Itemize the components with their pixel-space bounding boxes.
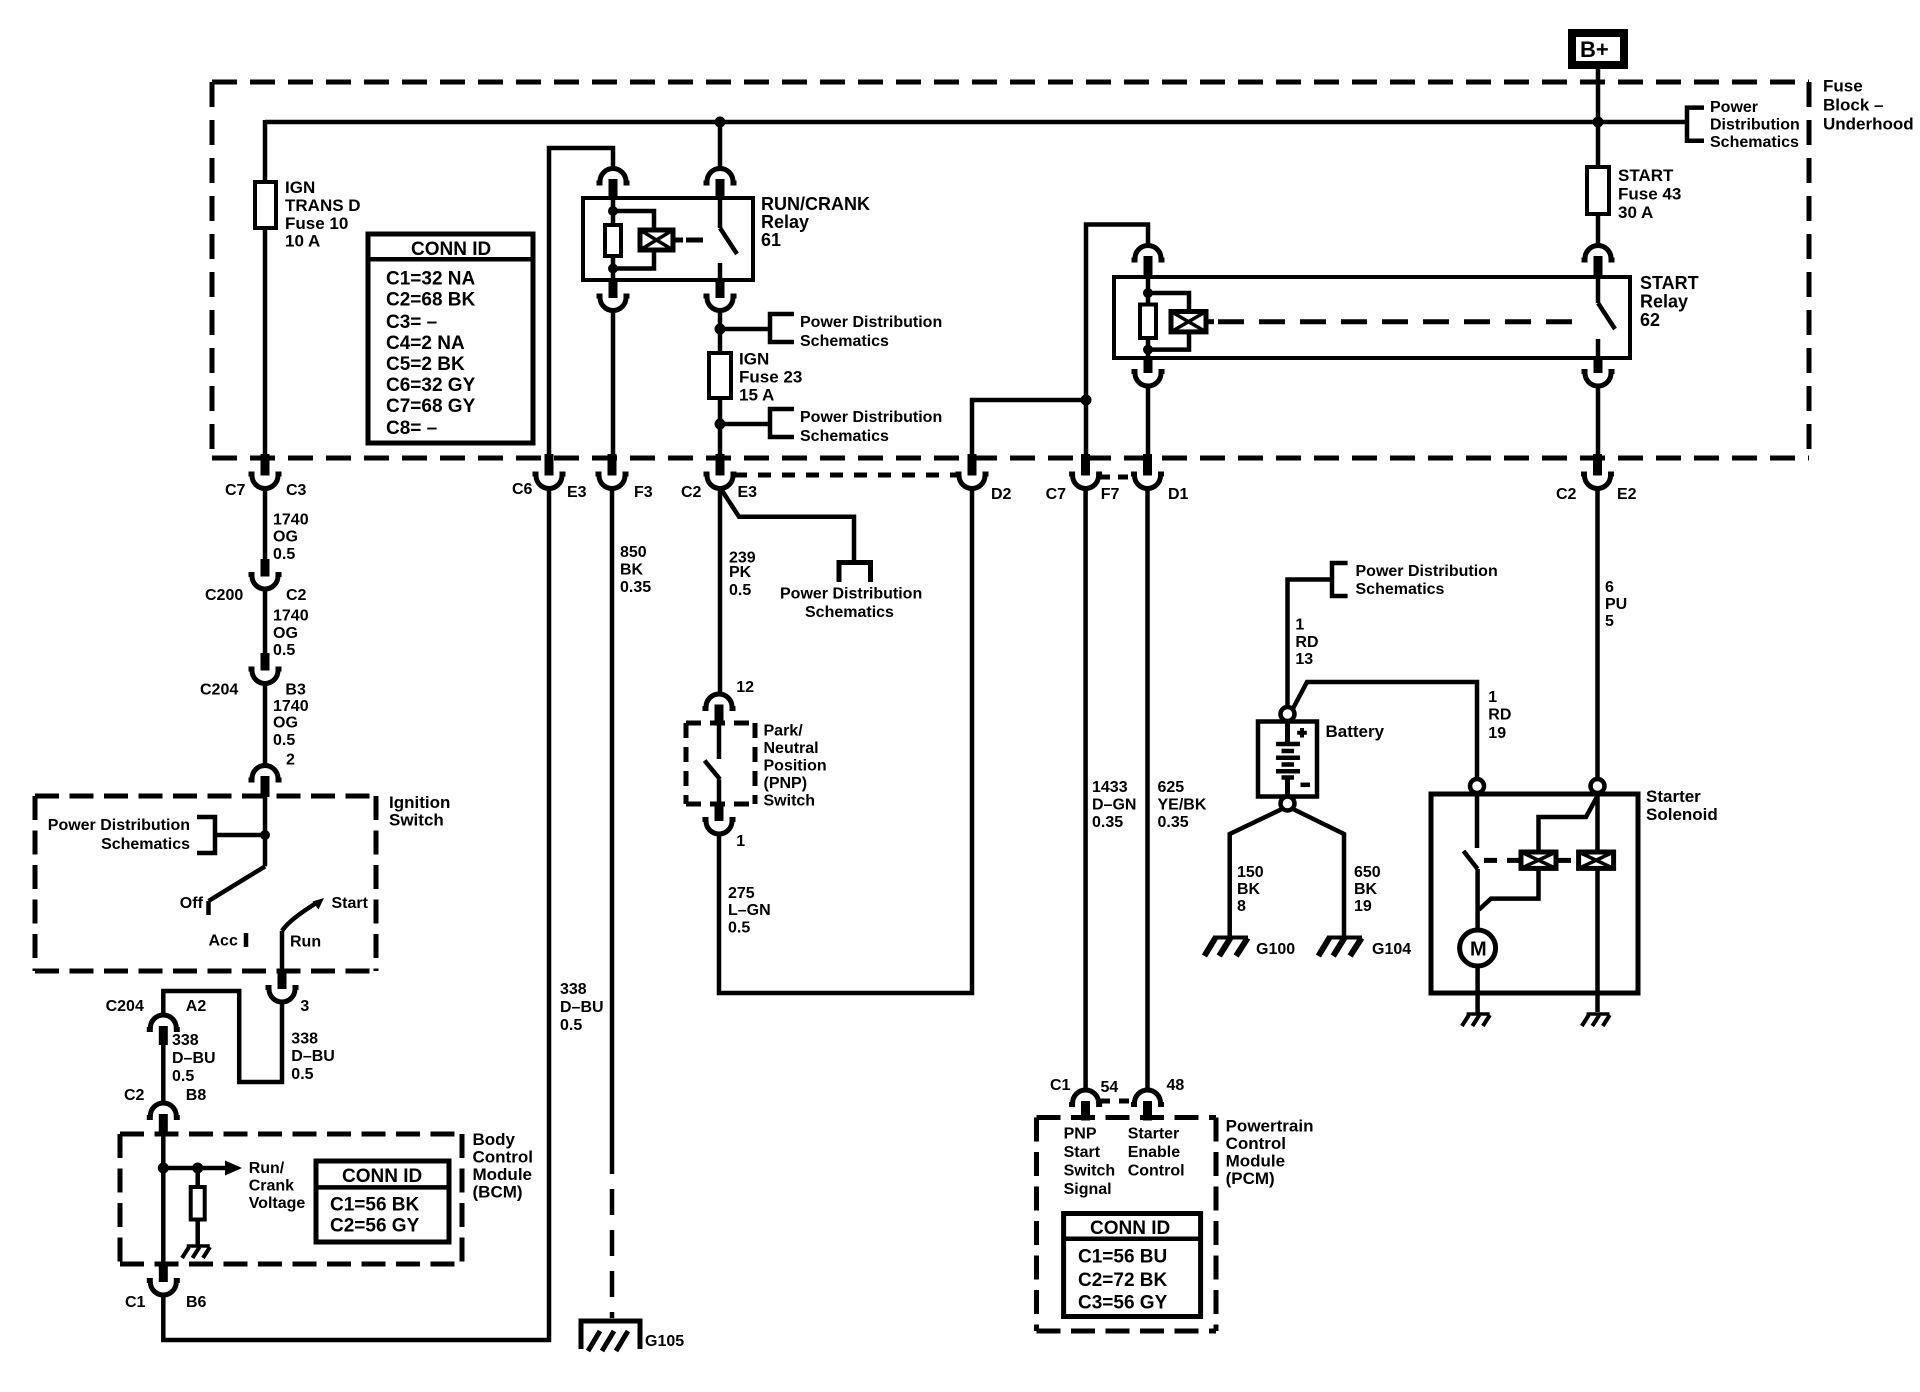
- svg-text:PU: PU: [1605, 596, 1627, 613]
- svg-text:C6=32 GY: C6=32 GY: [386, 375, 476, 396]
- svg-text:A2: A2: [186, 998, 207, 1015]
- wire 1740 OG: C3 to C200: [263, 489, 268, 561]
- svg-text:0.5: 0.5: [273, 732, 295, 749]
- svg-text:C2=72 BK: C2=72 BK: [1078, 1270, 1168, 1291]
- wire: relay 61 coil pin to F3: [611, 311, 616, 456]
- svg-text:C5=2 BK: C5=2 BK: [386, 354, 465, 375]
- junction node resistor tap: [192, 1163, 203, 1174]
- svg-text:Park/: Park/: [764, 723, 804, 740]
- svg-text:C7: C7: [225, 482, 246, 499]
- wire: D1 down to PCM: [1145, 489, 1150, 1091]
- svg-text:625: 625: [1158, 779, 1185, 796]
- wire: bus corner down to IGN TRANS D fuse: [263, 120, 268, 182]
- fuse F43: START Fuse 43 30A: [1587, 166, 1681, 222]
- svg-text:Neutral: Neutral: [764, 740, 819, 757]
- svg-text:C1: C1: [1050, 1077, 1071, 1094]
- junction node below fuse 23: [715, 419, 726, 430]
- svg-text:Control: Control: [1128, 1162, 1185, 1179]
- svg-text:0.5: 0.5: [728, 920, 750, 937]
- connector C2/E2 at fuse block exit: [1556, 454, 1637, 503]
- module box: Powertrain Control Module PCM (dashed border): [1037, 1118, 1217, 1332]
- dashed actuation link (solenoid): [1484, 858, 1578, 863]
- svg-text:D–BU: D–BU: [172, 1050, 216, 1067]
- wire: relay 61 switch pin to IGN fuse 23: [718, 311, 723, 354]
- svg-text:54: 54: [1101, 1079, 1119, 1096]
- svg-text:Schematics: Schematics: [800, 333, 889, 350]
- ground (starter motor): [1462, 1014, 1490, 1026]
- svg-text:Power Distribution: Power Distribution: [800, 409, 942, 426]
- svg-text:IGN: IGN: [285, 178, 315, 197]
- solenoid coil 1 winding: [1521, 852, 1556, 868]
- svg-text:Start: Start: [332, 895, 369, 912]
- battery negative terminal node: [1281, 797, 1295, 811]
- svg-text:Fuse: Fuse: [1823, 77, 1863, 96]
- svg-text:C3= –: C3= –: [386, 312, 437, 333]
- connector C6/E3 at fuse block exit: [512, 454, 587, 501]
- svg-text:5: 5: [1605, 613, 1614, 630]
- label: circuit 1 RD 19: [1488, 689, 1511, 742]
- label: circuit 1 RD 13: [1295, 617, 1318, 669]
- connector 48 at PCM (dome): [1131, 1077, 1184, 1121]
- svg-text:10 A: 10 A: [285, 232, 320, 251]
- svg-text:275: 275: [728, 885, 755, 902]
- svg-text:CONN ID: CONN ID: [342, 1166, 422, 1187]
- module box: Fuse Block - Underhood (dashed border): [212, 82, 1809, 458]
- svg-text:C3: C3: [286, 482, 307, 499]
- connector D2 at fuse block exit: [956, 454, 1012, 503]
- wire 1740 OG: C200 to C204: [263, 589, 268, 654]
- fuse F10: IGN TRANS D Fuse 10 10A: [255, 178, 361, 250]
- svg-text:C2: C2: [286, 587, 307, 604]
- wire: fuse 43 to START relay switch: [1596, 214, 1601, 246]
- svg-text:62: 62: [1640, 310, 1660, 330]
- table: CONN ID (BCM): [316, 1161, 449, 1242]
- wire: START relay coil feed from F7 leg: [1086, 225, 1148, 456]
- svg-text:Relay: Relay: [1640, 292, 1688, 312]
- resistor (relay 61 coil suppression): [605, 225, 621, 256]
- wire: E2 down to starter solenoid: [1595, 489, 1600, 780]
- svg-text:C1: C1: [125, 1294, 146, 1311]
- wire: relay 62 coil pin to D1 exit: [1146, 386, 1151, 456]
- svg-text:48: 48: [1167, 1077, 1185, 1094]
- off-page ref: Power Distribution Schematics (ignition switch): [48, 817, 265, 853]
- wire: F3 to G105 (solid section): [610, 489, 615, 1149]
- svg-text:Schematics: Schematics: [101, 836, 190, 853]
- svg-text:YE/BK: YE/BK: [1158, 797, 1207, 814]
- svg-text:Run: Run: [290, 934, 321, 951]
- label: circuit 650 BK 19: [1354, 864, 1381, 915]
- svg-text:Schematics: Schematics: [800, 428, 889, 445]
- svg-text:Enable: Enable: [1128, 1144, 1181, 1161]
- junction node relay 62 coil top: [1143, 288, 1153, 298]
- label: Starter Solenoid: [1646, 787, 1718, 824]
- wire: fuse 10 down to connector C7/C3: [263, 228, 268, 456]
- svg-text:C200: C200: [205, 587, 243, 604]
- svg-text:G105: G105: [645, 1333, 684, 1350]
- svg-text:1: 1: [1295, 617, 1304, 634]
- wire: motor to ground: [1475, 966, 1480, 1013]
- relay 62 coil winding symbol: [1171, 312, 1214, 332]
- label: circuit 850 BK 0.35: [620, 544, 651, 596]
- relay 62 coil circuit wires: [1148, 277, 1189, 358]
- svg-text:C7=68 GY: C7=68 GY: [386, 396, 476, 417]
- svg-text:C4=2 NA: C4=2 NA: [386, 333, 465, 354]
- wire: F7 down to PCM: [1083, 489, 1088, 1091]
- dashed actuation link relay 61: [686, 238, 712, 243]
- dashed link F7 to D1: [1100, 475, 1134, 480]
- svg-text:(PCM): (PCM): [1226, 1169, 1275, 1188]
- off-page ref: Power Distribution Schematics (battery feed): [1332, 563, 1498, 598]
- wire: coil 1 return to motor leg: [1479, 868, 1539, 909]
- wire: BCM internal vertical: [161, 1134, 166, 1264]
- svg-text:1: 1: [1488, 689, 1497, 706]
- ground G104: [1318, 938, 1411, 959]
- svg-text:(BCM): (BCM): [473, 1183, 523, 1202]
- svg-text:OG: OG: [273, 715, 298, 732]
- svg-text:150: 150: [1237, 864, 1264, 881]
- label: Acc with contact tick: [209, 933, 247, 950]
- relay 62 switch: [1598, 277, 1615, 358]
- svg-text:BK: BK: [1354, 881, 1378, 898]
- arrow: Run/Crank Voltage: [163, 1160, 305, 1212]
- B+ terminal: [1572, 33, 1624, 65]
- svg-text:G100: G100: [1256, 941, 1295, 958]
- battery G1: [1258, 722, 1317, 798]
- svg-text:C6: C6: [512, 481, 533, 498]
- PNP switch contact: [705, 724, 720, 804]
- svg-text:0.5: 0.5: [560, 1017, 582, 1034]
- svg-text:Run/: Run/: [249, 1160, 285, 1177]
- label: Powertrain Control Module (PCM): [1226, 1117, 1314, 1189]
- relay 61 coil winding symbol: [640, 230, 683, 250]
- svg-text:Power Distribution: Power Distribution: [780, 585, 922, 602]
- label: Starter Enable Control: [1128, 1126, 1185, 1180]
- svg-text:850: 850: [620, 544, 647, 561]
- svg-text:Position: Position: [764, 758, 827, 775]
- connector half (cup) below relay 62 switch pin: [1582, 357, 1615, 386]
- svg-text:C204: C204: [200, 682, 238, 699]
- svg-text:C7: C7: [1046, 486, 1067, 503]
- svg-text:E3: E3: [567, 484, 587, 501]
- svg-text:CONN ID: CONN ID: [1090, 1218, 1170, 1239]
- svg-text:Power Distribution: Power Distribution: [800, 314, 942, 331]
- wire: C204/A2 to C2/B8: [161, 1045, 166, 1103]
- svg-text:C1=32 NA: C1=32 NA: [386, 268, 476, 289]
- svg-text:OG: OG: [273, 529, 298, 546]
- component box: Starter Solenoid: [1431, 794, 1638, 993]
- ground G105: [581, 1321, 684, 1351]
- svg-text:D2: D2: [991, 486, 1012, 503]
- svg-text:C1=56 BU: C1=56 BU: [1078, 1247, 1167, 1268]
- label: circuit 1740 OG 0.5: [273, 512, 309, 563]
- svg-text:G104: G104: [1372, 941, 1411, 958]
- svg-text:1740: 1740: [273, 512, 309, 529]
- label: START Relay 62: [1640, 273, 1699, 330]
- dashed link E3 to D2: [734, 473, 958, 478]
- wire: bus down to relay 61 switch: [718, 122, 723, 169]
- svg-text:0.5: 0.5: [172, 1068, 194, 1085]
- wire: B+ to fuse block bus: [1596, 69, 1601, 167]
- junction node at PDS tap: [260, 830, 270, 840]
- svg-text:Module: Module: [1226, 1152, 1286, 1171]
- svg-text:L–GN: L–GN: [728, 902, 771, 919]
- svg-text:Start: Start: [1064, 1144, 1101, 1161]
- off-page ref: Power Distribution Schematics (top right): [1687, 99, 1800, 151]
- svg-text:TRANS D: TRANS D: [285, 196, 361, 215]
- svg-text:Body: Body: [473, 1130, 516, 1149]
- relay 61 switch: [720, 198, 737, 280]
- wire: C2/E3 down to PNP switch: [718, 489, 723, 695]
- wire: dashed section to G105: [610, 1148, 615, 1318]
- wire: E2 terminal through coil 2 to ground: [1595, 793, 1600, 1012]
- svg-text:RD: RD: [1295, 634, 1318, 651]
- svg-text:Ignition: Ignition: [389, 793, 450, 812]
- svg-text:0.35: 0.35: [1092, 814, 1123, 831]
- label: circuit 625 YE/BK 0.35: [1158, 779, 1207, 831]
- wire: fuse 23 to C2/E3 exit: [718, 398, 723, 456]
- svg-text:B8: B8: [186, 1087, 207, 1104]
- ignition switch blade (to Off): [209, 866, 266, 915]
- label: circuit 338 D-BU 0.5 (to BCM): [172, 1032, 216, 1085]
- svg-text:Fuse 23: Fuse 23: [739, 368, 802, 387]
- svg-text:1740: 1740: [273, 608, 309, 625]
- svg-text:(PNP): (PNP): [764, 775, 808, 792]
- svg-text:B+: B+: [1580, 37, 1609, 62]
- curved arrow Run to Start: [282, 898, 324, 931]
- svg-text:19: 19: [1354, 898, 1372, 915]
- dashed actuation link relay 62: [1218, 319, 1576, 324]
- svg-text:D–BU: D–BU: [560, 999, 604, 1016]
- ground G100: [1204, 938, 1295, 959]
- junction node BCM tap: [158, 1163, 169, 1174]
- svg-text:C2=56 GY: C2=56 GY: [330, 1216, 420, 1237]
- svg-text:Control: Control: [473, 1148, 533, 1167]
- ground (BCM internal): [182, 1246, 210, 1258]
- label: circuit 338 D-BU 0.5 (ignition output): [291, 1031, 335, 1083]
- label: Body Control Module (BCM): [473, 1130, 533, 1202]
- svg-text:0.5: 0.5: [729, 582, 751, 599]
- svg-text:12: 12: [736, 679, 754, 696]
- connector C7/F7 at fuse block exit: [1046, 454, 1120, 503]
- connector D1 at fuse block exit: [1131, 454, 1189, 503]
- connector C200/C2 in-line: [205, 559, 307, 604]
- svg-text:Voltage: Voltage: [249, 1195, 306, 1212]
- svg-text:CONN ID: CONN ID: [411, 239, 491, 260]
- wire: battery negative to G100: [1230, 809, 1283, 937]
- svg-text:Power Distribution: Power Distribution: [48, 817, 190, 834]
- svg-text:8: 8: [1237, 898, 1246, 915]
- connector C2/B8 at BCM entry (dome): [124, 1087, 206, 1136]
- off-page ref: Power Distribution Schematics (below E3): [780, 563, 922, 622]
- junction node relay 62 coil bottom: [1143, 345, 1153, 355]
- resistor (relay 62 coil suppression): [1140, 305, 1156, 339]
- junction node relay 61 coil top: [608, 206, 618, 216]
- junction node on F7 leg: [1081, 395, 1092, 406]
- table: CONN ID (PCM): [1064, 1214, 1201, 1317]
- solenoid coil 2 winding: [1579, 852, 1614, 868]
- relay 61 coil circuit wires: [613, 198, 654, 280]
- wire: coil 1 feed from E2 terminal: [1539, 795, 1599, 852]
- connector C1/B6 at BCM exit (cup): [125, 1263, 207, 1311]
- label: circuit 1740 OG 0.5 terminal 2: [273, 698, 309, 768]
- svg-text:C204: C204: [106, 998, 144, 1015]
- svg-text:BK: BK: [620, 562, 644, 579]
- svg-text:BK: BK: [1237, 881, 1261, 898]
- svg-text:F7: F7: [1101, 486, 1120, 503]
- svg-text:IGN: IGN: [739, 350, 769, 369]
- svg-text:D–BU: D–BU: [291, 1048, 335, 1065]
- connector half (dome) above relay 61 coil pin: [597, 169, 630, 199]
- svg-text:Distribution: Distribution: [1710, 117, 1800, 134]
- wire 1740 OG: C204 to ignition switch: [263, 684, 268, 766]
- svg-text:RD: RD: [1488, 707, 1511, 724]
- wire: branch E3 to power distribution ref: [720, 488, 854, 561]
- connector half (dome) above START relay coil pin: [1132, 246, 1165, 278]
- connector C2/E3 at fuse block exit: [681, 454, 757, 501]
- svg-text:338: 338: [172, 1032, 199, 1049]
- svg-text:0.5: 0.5: [273, 546, 295, 563]
- table: CONN ID (fuse block): [368, 234, 533, 443]
- svg-text:Block –: Block –: [1823, 96, 1883, 115]
- label: Fuse Block - Underhood: [1823, 77, 1914, 134]
- svg-text:650: 650: [1354, 864, 1381, 881]
- relay U62 box: START Relay 62: [1114, 277, 1630, 358]
- svg-text:Switch: Switch: [389, 811, 444, 830]
- svg-text:F3: F3: [634, 484, 653, 501]
- svg-text:13: 13: [1295, 651, 1313, 668]
- svg-text:Control: Control: [1226, 1134, 1286, 1153]
- label: circuit 1740 OG 0.5: [273, 608, 309, 660]
- wire: PNP terminal 1 loop to D2: [719, 489, 972, 994]
- svg-text:Powertrain: Powertrain: [1226, 1117, 1314, 1136]
- svg-text:1740: 1740: [273, 698, 309, 715]
- motor M (starter): [1460, 930, 1496, 966]
- svg-text:30 A: 30 A: [1618, 203, 1653, 222]
- svg-text:0.35: 0.35: [620, 579, 651, 596]
- module box: Ignition Switch (dashed border): [35, 796, 376, 971]
- wire: S-bend from terminal 3 to C204/A2: [163, 991, 282, 1082]
- wire: PDS ref down to battery positive: [1288, 580, 1333, 708]
- solenoid terminal node (E2 side): [1591, 779, 1605, 793]
- connector half (cup) below relay 62 coil pin: [1132, 357, 1165, 386]
- svg-text:Relay: Relay: [761, 212, 809, 232]
- label: circuit 6 PU 5: [1605, 579, 1627, 630]
- svg-text:RUN/CRANK: RUN/CRANK: [761, 194, 870, 214]
- connector half (cup) below relay 61 switch pin: [704, 279, 737, 311]
- svg-text:PK: PK: [729, 564, 752, 581]
- svg-text:Power Distribution: Power Distribution: [1356, 563, 1498, 580]
- connector at ignition terminal 3 (cup): [266, 970, 310, 1015]
- svg-text:61: 61: [761, 230, 781, 250]
- wire: D2 leg up to F7 leg: [972, 400, 1086, 456]
- svg-text:C8= –: C8= –: [386, 418, 437, 439]
- wire: ignition feed into switch: [263, 796, 268, 866]
- svg-text:0.5: 0.5: [291, 1066, 313, 1083]
- svg-text:338: 338: [291, 1031, 318, 1048]
- label: PNP Start Switch Signal: [1064, 1126, 1116, 1198]
- connector C204/A2 in-line (dome): [106, 998, 207, 1045]
- wire: battery negative to G104: [1292, 809, 1344, 937]
- connector half (dome) above relay 61 switch pin: [704, 169, 737, 199]
- svg-text:Switch: Switch: [1064, 1162, 1116, 1179]
- module box: PNP switch (dashed border): [686, 723, 755, 804]
- svg-text:C2: C2: [1556, 486, 1577, 503]
- wire: relay 62 switch pin to C2/E2 exit: [1596, 386, 1601, 456]
- off-page ref: Power Distribution Schematics (below fuse 23): [720, 409, 942, 445]
- svg-text:C2: C2: [681, 484, 702, 501]
- label: circuit 338 D-BU 0.5 (BCM to C6): [560, 981, 604, 1034]
- svg-text:OG: OG: [273, 625, 298, 642]
- svg-text:Starter: Starter: [1128, 1126, 1180, 1143]
- svg-text:Fuse 43: Fuse 43: [1618, 185, 1681, 204]
- svg-text:Off: Off: [180, 895, 204, 912]
- connector half (cup) below relay 61 coil pin: [597, 279, 630, 311]
- svg-text:Module: Module: [473, 1165, 533, 1184]
- svg-text:1: 1: [736, 833, 745, 850]
- junction node at RUN/CRANK relay feed: [715, 117, 726, 128]
- svg-text:B6: B6: [186, 1294, 207, 1311]
- svg-text:Starter: Starter: [1646, 787, 1701, 806]
- relay U61 box: RUN/CRANK Relay 61: [583, 198, 753, 280]
- label: RUN/CRANK Relay 61: [761, 194, 870, 250]
- svg-text:Schematics: Schematics: [1356, 581, 1445, 598]
- module box: Body Control Module BCM (dashed border): [120, 1134, 462, 1264]
- svg-text:E3: E3: [738, 484, 758, 501]
- svg-text:Acc: Acc: [209, 933, 238, 950]
- svg-text:Underhood: Underhood: [1823, 114, 1914, 133]
- solenoid switch: [1464, 793, 1478, 930]
- solenoid terminal node (battery side): [1470, 779, 1484, 793]
- connector at PNP terminal 1 (cup): [703, 803, 746, 850]
- wire: battery positive branch to starter solenoid: [1293, 682, 1477, 779]
- svg-text:Schematics: Schematics: [805, 604, 894, 621]
- label: circuit 1433 D-GN 0.35: [1092, 779, 1136, 831]
- svg-text:PNP: PNP: [1064, 1126, 1097, 1143]
- svg-text:C2: C2: [124, 1087, 145, 1104]
- connector C1/54 at PCM (dome): [1050, 1077, 1118, 1121]
- svg-text:D–GN: D–GN: [1092, 797, 1136, 814]
- svg-text:Schematics: Schematics: [1710, 134, 1799, 151]
- wire: Run contact down to terminal 3: [280, 931, 285, 971]
- svg-text:C1=56 BK: C1=56 BK: [330, 1195, 420, 1216]
- resistor (BCM pull-down): [191, 1168, 205, 1245]
- connector half (dome) above START relay switch pin: [1582, 246, 1615, 278]
- svg-text:Battery: Battery: [1326, 722, 1385, 741]
- connector half (dome) at PNP terminal 12: [703, 694, 736, 724]
- svg-text:1433: 1433: [1092, 779, 1128, 796]
- fuse F23: IGN Fuse 23 15A: [709, 350, 802, 405]
- junction node above fuse 23: [715, 324, 726, 335]
- svg-text:2: 2: [286, 751, 295, 768]
- connector C7/C3 at fuse block exit: [225, 454, 307, 499]
- connector F3 at fuse block exit: [596, 454, 653, 501]
- junction node at START fuse feed: [1593, 117, 1604, 128]
- label: circuit 239 PK 0.5: [729, 549, 756, 599]
- svg-text:B3: B3: [285, 682, 306, 699]
- svg-text:3: 3: [300, 998, 309, 1015]
- wire: relay 61 coil feed from C6 leg: [549, 148, 613, 456]
- label: circuit 275 L-GN 0.5: [728, 885, 771, 937]
- dashed link PCM 54 to 48: [1100, 1099, 1134, 1104]
- connector C204/B3 in-line: [200, 653, 306, 699]
- svg-text:START: START: [1640, 273, 1699, 293]
- wire: BCM exit loop to C6: [163, 489, 549, 1341]
- battery positive terminal node: [1281, 707, 1295, 721]
- svg-text:6: 6: [1605, 579, 1614, 596]
- junction node relay 61 coil bottom: [608, 264, 618, 274]
- label: Park/Neutral Position (PNP) Switch: [764, 723, 827, 810]
- svg-text:19: 19: [1488, 725, 1506, 742]
